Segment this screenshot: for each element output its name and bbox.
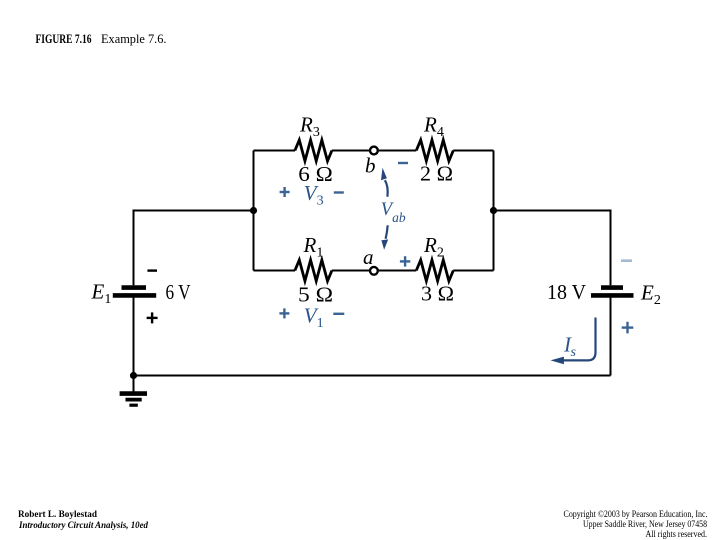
svg-text:b: b <box>365 154 376 178</box>
svg-text:R4: R4 <box>423 113 444 141</box>
svg-text:a: a <box>363 245 374 269</box>
svg-text:E2: E2 <box>640 281 661 309</box>
svg-text:E1: E1 <box>91 280 112 308</box>
svg-text:2 Ω: 2 Ω <box>420 162 453 186</box>
svg-text:Vab: Vab <box>381 200 406 225</box>
svg-text:R1: R1 <box>303 233 324 261</box>
svg-text:Is: Is <box>563 333 577 361</box>
svg-text:V1: V1 <box>304 303 324 331</box>
svg-text:R3: R3 <box>299 113 320 141</box>
svg-text:18 V: 18 V <box>547 280 586 304</box>
svg-text:Example 7.6.: Example 7.6. <box>101 32 167 46</box>
svg-text:6 V: 6 V <box>166 280 191 304</box>
svg-text:FIGURE 7.16: FIGURE 7.16 <box>36 32 92 46</box>
svg-text:Robert L. Boylestad: Robert L. Boylestad <box>18 509 98 520</box>
svg-text:3 Ω: 3 Ω <box>421 282 454 306</box>
svg-text:All rights reserved.: All rights reserved. <box>646 529 708 540</box>
svg-text:R2: R2 <box>423 233 444 261</box>
svg-text:Introductory Circuit Analysis,: Introductory Circuit Analysis, 10ed <box>18 520 148 531</box>
